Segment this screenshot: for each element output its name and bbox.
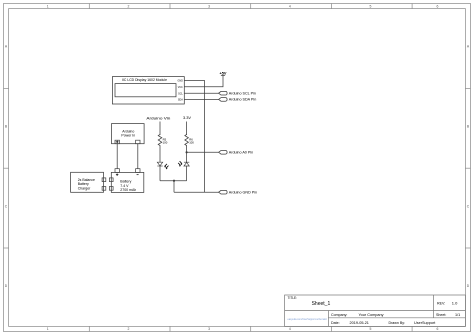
connector Arduino A0 Pin [219,151,228,155]
svg-text:Arduino GND Pin: Arduino GND Pin [229,191,257,195]
svg-text:3: 3 [208,327,210,331]
power symbol +5V [221,74,225,76]
svg-text:Your Company: Your Company [359,313,384,317]
node A0 tap junction dot [186,151,188,153]
svg-text:4: 4 [289,327,291,331]
svg-text:Arduino SCL Pin: Arduino SCL Pin [229,92,256,96]
svg-text:REV:: REV: [437,301,445,305]
frame zone letters right [467,45,470,288]
svg-text:Arduino Vin: Arduino Vin [146,116,170,121]
svg-text:1: 1 [47,327,49,331]
svg-text:5: 5 [370,327,372,331]
svg-text:Power In: Power In [121,133,135,137]
wire D1 to bottom rail [159,166,161,181]
svg-text:2: 2 [127,327,129,331]
svg-text:VCC: VCC [178,86,183,89]
wire LCD SCL pin to connector [184,92,218,94]
svg-text:TITLE:: TITLE: [288,296,298,300]
svg-text:Sheet:: Sheet: [436,313,446,317]
photodiode D1 [157,162,162,166]
svg-text:1: 1 [47,5,49,9]
Arduino Power In pin - (right) [136,140,140,144]
wire power in right pin to battery [137,144,139,169]
frame zone numbers top [47,5,439,9]
module 2s Balance Battery Charger body [71,172,104,192]
connector Arduino GND Pin [219,190,228,194]
wire power in left pin to battery [116,144,118,169]
wire D2 to bottom rail [186,166,188,181]
wire R6 to A0 node [186,147,188,162]
svg-text:2019-05-21: 2019-05-21 [350,321,369,325]
wire LCD GND pin to vertical gnd run [184,81,204,193]
charger right pin 1 [102,178,106,182]
wire 3.3V down to resistor R6 [186,122,188,136]
svg-text:IIC LCD Display 1602 Module: IIC LCD Display 1602 Module [122,78,167,82]
wire GND rail to connector [174,191,219,193]
resistor R5 [158,134,162,147]
svg-text:3: 3 [208,5,210,9]
svg-text:1/1: 1/1 [455,313,460,317]
frame zone ticks top [89,4,412,9]
charger right pin 2 [102,187,106,191]
battery BT1 top pin - [136,169,140,173]
connector Arduino SCL Pin [219,91,228,95]
svg-text:UserSupport: UserSupport [414,321,436,325]
svg-text:Sheet_1: Sheet_1 [312,301,331,307]
resistor R6 [185,134,189,147]
photodiode D2 [184,162,189,166]
svg-text:+5V: +5V [220,71,227,75]
wire Arduino Vin down to resistor R5 [159,122,161,136]
LCD module U1 body [112,77,184,104]
wire A0 node to connector [187,151,219,153]
svg-text:SCL: SCL [178,92,183,95]
svg-text:6: 6 [437,5,439,9]
battery BT1 top pin + [115,169,119,173]
svg-text:easyeda.com/UserSupport-schema: easyeda.com/UserSupport-schematic [288,317,328,321]
wire R5 to photodiode D1 [159,147,161,162]
wire LCD SDA pin to connector [184,98,218,100]
svg-text:Charger: Charger [78,186,91,190]
svg-text:Company:: Company: [331,313,347,317]
frame zone ticks right [465,88,470,248]
battery polarity - mark [137,174,139,176]
frame zone ticks left [4,88,9,248]
svg-text:3.3V: 3.3V [183,115,191,120]
battery left pin 2 [109,187,113,191]
svg-text:GND: GND [177,80,183,83]
LCD display window rect [115,84,176,97]
battery left pin 1 [109,178,113,182]
svg-text:Arduino A0 Pin: Arduino A0 Pin [229,151,253,155]
frame zone letters left [5,45,8,288]
svg-text:100: 100 [163,141,168,145]
connector Arduino SDA Pin [219,98,228,102]
battery polarity + mark [116,174,119,177]
svg-text:Arduino SDA Pin: Arduino SDA Pin [229,98,256,102]
Arduino Power In pin + (left) [115,140,119,144]
svg-text:6: 6 [437,327,439,331]
battery BT1 body [111,172,144,192]
frame zone numbers bottom [47,327,439,331]
wire bottom rail joining D1 D2 [160,180,187,182]
wire LCD VCC pin to +5V [184,75,223,87]
module Arduino Power In body [112,124,145,144]
svg-text:SDA: SDA [178,99,183,102]
junction dot on bottom rail [173,180,175,182]
svg-text:100: 100 [189,141,194,145]
svg-text:Drawn By:: Drawn By: [389,321,406,325]
svg-text:5: 5 [370,5,372,9]
svg-text:Date:: Date: [331,321,340,325]
svg-text:4: 4 [289,5,291,9]
svg-text:2: 2 [127,5,129,9]
title block outline [285,295,466,326]
frame zone ticks bottom [89,326,412,331]
wire junction down to GND rail [173,181,175,193]
svg-text:2700 mAh: 2700 mAh [120,188,136,192]
svg-text:1.0: 1.0 [452,300,458,305]
